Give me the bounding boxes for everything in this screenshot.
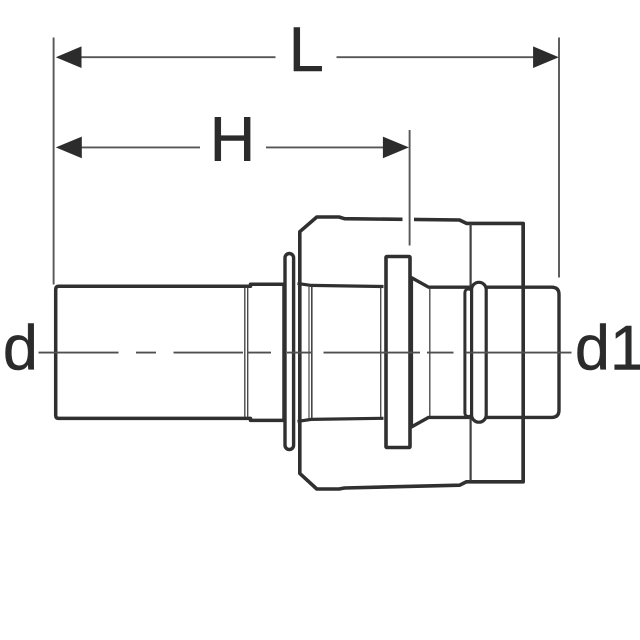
svg-text:H: H	[210, 105, 256, 175]
svg-text:d1: d1	[575, 313, 640, 383]
svg-text:d: d	[3, 313, 38, 383]
svg-text:L: L	[289, 15, 324, 85]
